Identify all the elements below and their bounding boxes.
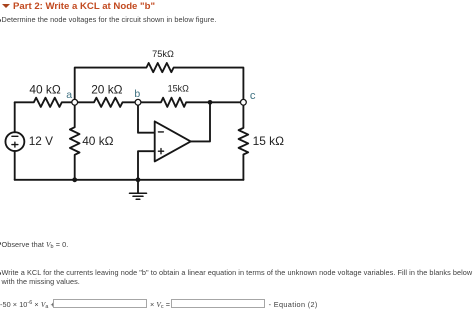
svg-text:40 kΩ: 40 kΩ bbox=[29, 82, 60, 96]
svg-text:a: a bbox=[66, 89, 72, 101]
svg-text:40 kΩ: 40 kΩ bbox=[82, 134, 113, 148]
svg-text:15kΩ: 15kΩ bbox=[168, 83, 190, 93]
svg-text:15 kΩ: 15 kΩ bbox=[253, 134, 284, 148]
svg-text:b: b bbox=[134, 88, 140, 100]
svg-text:75kΩ: 75kΩ bbox=[152, 49, 174, 59]
svg-text:c: c bbox=[250, 90, 256, 102]
svg-text:20 kΩ: 20 kΩ bbox=[91, 82, 122, 96]
svg-text:12 V: 12 V bbox=[29, 134, 53, 148]
